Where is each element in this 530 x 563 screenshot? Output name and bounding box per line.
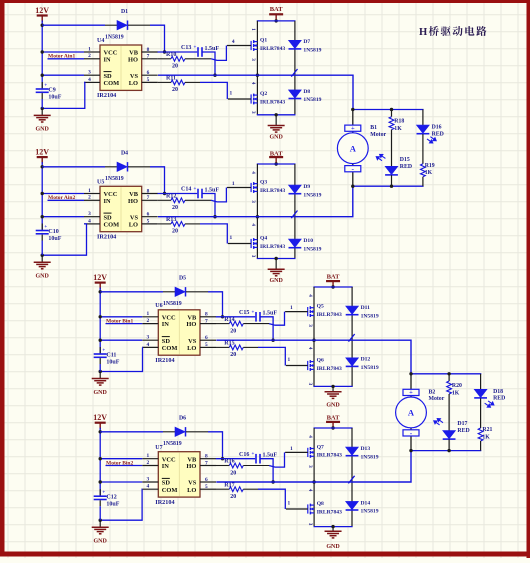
node VS junction: [213, 74, 216, 77]
wire COM pin4 to ground rail: [100, 347, 142, 371]
gate wire Q7: [285, 451, 308, 453]
svg-text:H: H: [419, 27, 428, 38]
svg-text:D12: D12: [361, 357, 371, 363]
svg-text:R17: R17: [224, 482, 234, 488]
svg-text:20: 20: [172, 205, 178, 211]
gate riser Q2: [200, 82, 227, 99]
wire D15 to bottom rail: [391, 175, 393, 186]
svg-text:1N5819: 1N5819: [361, 454, 379, 460]
gate wire Q5: [285, 311, 308, 313]
op-amp-driver U5 IR2104 block: [100, 186, 142, 231]
node BAT junction: [331, 426, 334, 429]
node VB junction: [163, 50, 166, 53]
node motor top junction: [351, 108, 354, 111]
wire bootstrap cap to VS: [202, 194, 215, 217]
node bottom rail junction: [274, 113, 277, 116]
ground symbol GND: [92, 372, 109, 386]
node SD junction: [41, 215, 44, 218]
wire diode cathode to VB net: [128, 24, 150, 26]
svg-text:IR2104: IR2104: [97, 234, 116, 241]
svg-text:U5: U5: [97, 180, 104, 186]
LED D16 RED (right column): [422, 110, 424, 126]
node VB junction: [221, 315, 224, 318]
pin stubs left: [142, 316, 158, 318]
svg-text:C16: C16: [239, 452, 249, 458]
svg-text:6: 6: [205, 335, 208, 341]
node SD junction: [41, 74, 44, 77]
svg-text:R20: R20: [452, 383, 462, 389]
wire bridge diode column: [294, 164, 296, 259]
svg-text:RED: RED: [432, 132, 444, 138]
node COM corner junction: [41, 254, 44, 257]
svg-text:2: 2: [88, 195, 91, 201]
transistor Q1 IRLR7843 (high side): [251, 40, 257, 51]
wire VS output net bridge2 to motor B1 bottom: [158, 186, 353, 217]
wire VCC pin1: [42, 51, 84, 53]
gate wire Q8: [286, 508, 308, 510]
svg-text:1: 1: [146, 311, 149, 317]
svg-text:8: 8: [147, 47, 150, 53]
gate riser Q4: [200, 224, 227, 244]
wire diode column slash jog: [348, 476, 354, 484]
resistor R11 20 (LO gate): [158, 81, 171, 83]
svg-text:VS: VS: [188, 338, 197, 345]
svg-text:C11: C11: [106, 353, 116, 359]
svg-text:Motor Ain2: Motor Ain2: [48, 195, 75, 201]
node VCC junction: [41, 192, 44, 195]
svg-text:7: 7: [147, 54, 150, 60]
svg-text:R10: R10: [166, 52, 176, 58]
svg-text:GND: GND: [269, 134, 283, 140]
power port BAT (Q3/Q4 bridge): [269, 150, 283, 163]
wire 12V to diode anode: [42, 166, 105, 168]
wire 12V rail: [41, 21, 43, 89]
LED D17 RED: [443, 431, 456, 440]
svg-text:Q1: Q1: [260, 38, 267, 44]
net label Motor Ain1: [48, 58, 85, 60]
svg-text:D13: D13: [361, 446, 371, 452]
node VCC junction: [41, 50, 44, 53]
wire bridge diode column: [351, 428, 353, 527]
gate wire Q2: [228, 98, 251, 100]
power port BAT (Q1/Q2 bridge): [269, 6, 283, 21]
svg-text:R13: R13: [166, 217, 176, 223]
wire 12V to diode anode: [100, 291, 163, 293]
resistor R18 1K: [391, 110, 393, 117]
svg-text:IRLR7843: IRLR7843: [317, 366, 342, 372]
svg-text:IN: IN: [104, 56, 111, 63]
svg-text:+: +: [194, 46, 197, 51]
gate riser Q8: [258, 489, 285, 509]
svg-text:1N5819: 1N5819: [361, 365, 379, 371]
wire VS output net bridge1 to motor B1 top: [158, 75, 353, 109]
diode D6 1N5819: [175, 427, 186, 436]
wire 12V rail: [41, 162, 43, 230]
svg-text:3: 3: [250, 111, 256, 114]
wire D17 to bottom rail: [448, 439, 450, 450]
svg-text:GND: GND: [94, 539, 108, 545]
node BAT junction: [331, 285, 334, 288]
resistor R19 1K (right column): [422, 134, 424, 164]
op-amp-driver U4 IR2104 block: [100, 45, 142, 90]
svg-text:B1: B1: [370, 125, 377, 131]
svg-text:1N5819: 1N5819: [163, 441, 182, 447]
svg-text:4: 4: [146, 484, 149, 490]
svg-text:1.5uF: 1.5uF: [263, 453, 278, 459]
gate wire Q3: [227, 187, 251, 189]
op-amp-driver U7 IR2104 block: [158, 452, 200, 497]
svg-text:SD: SD: [104, 214, 113, 221]
wire bridge bottom rail: [257, 114, 296, 116]
svg-text:D8: D8: [303, 89, 310, 95]
svg-text:20: 20: [230, 352, 236, 358]
wire bridge top rail: [314, 427, 353, 429]
wire R19 to bottom rail: [422, 177, 424, 186]
svg-text:20: 20: [230, 470, 236, 476]
svg-text:IRLR7843: IRLR7843: [317, 312, 342, 318]
svg-text:IRLR7843: IRLR7843: [260, 244, 285, 250]
svg-text:IR2104: IR2104: [97, 92, 116, 99]
svg-text:D6: D6: [179, 416, 186, 422]
svg-text:12V: 12V: [35, 6, 49, 15]
svg-text:Motor Bin2: Motor Bin2: [106, 460, 133, 466]
diode D4 1N5819: [117, 162, 128, 171]
svg-text:SD: SD: [162, 338, 171, 345]
gate wire Q4: [228, 243, 251, 245]
svg-text:6: 6: [147, 70, 150, 76]
svg-text:C9: C9: [48, 88, 55, 94]
svg-text:2: 2: [146, 318, 149, 324]
node VB junction: [163, 192, 166, 195]
svg-text:2: 2: [146, 460, 149, 466]
svg-text:20: 20: [230, 328, 236, 334]
svg-text:1: 1: [230, 91, 233, 97]
svg-text:1: 1: [288, 501, 291, 507]
svg-text:D5: D5: [179, 276, 186, 282]
wire COM pin4 to ground rail: [42, 82, 85, 108]
power port 12V (U5 block): [35, 148, 49, 164]
svg-text:8: 8: [205, 312, 208, 318]
svg-text:IN: IN: [162, 463, 169, 470]
svg-text:D16: D16: [432, 125, 442, 131]
diode D7 1N5819 (high side): [289, 40, 302, 49]
node bridge output junction: [256, 74, 259, 77]
svg-text:COM: COM: [104, 222, 120, 229]
gate riser Q3: [211, 188, 226, 202]
wire bridge left rail (drain-source chain): [313, 287, 315, 386]
svg-text:IRLR7843: IRLR7843: [317, 453, 342, 459]
svg-text:5: 5: [147, 219, 150, 225]
capacitor C12 10uF: [99, 489, 101, 495]
svg-text:R12: R12: [166, 194, 176, 200]
svg-text:IRLR7843: IRLR7843: [317, 509, 342, 515]
ground symbol GND: [34, 255, 51, 269]
svg-text:VS: VS: [130, 214, 139, 221]
svg-text:BAT: BAT: [270, 6, 284, 13]
wire diode column slash jog: [291, 211, 297, 219]
wire 12V rail: [99, 428, 101, 496]
svg-text:10uF: 10uF: [106, 360, 119, 366]
capacitor C11 10uF: [99, 347, 101, 353]
svg-text:1: 1: [230, 235, 233, 241]
node bridge output junction: [256, 215, 259, 218]
resistor R15 20 (LO gate): [216, 346, 229, 348]
svg-text:20: 20: [230, 494, 236, 500]
svg-text:C14: C14: [181, 187, 191, 193]
node COM corner junction: [41, 107, 44, 110]
svg-text:D15: D15: [400, 157, 410, 163]
wire VCC pin1: [100, 458, 142, 460]
svg-text:3: 3: [307, 465, 313, 468]
svg-text:4: 4: [250, 223, 256, 226]
svg-text:GND: GND: [326, 402, 340, 408]
svg-text:GND: GND: [36, 274, 50, 280]
pin stubs left: [84, 193, 100, 195]
svg-text:20: 20: [172, 64, 178, 70]
wire VS output net bridge3 to motor B2 top: [216, 340, 411, 374]
pin stubs left: [142, 458, 158, 460]
net label Motor Ain2: [48, 199, 85, 201]
svg-text:D18: D18: [493, 389, 503, 395]
wire SD pin3: [100, 339, 142, 341]
svg-text:12V: 12V: [93, 413, 107, 422]
svg-text:3: 3: [88, 211, 91, 217]
svg-text:3: 3: [307, 383, 313, 386]
svg-text:5: 5: [147, 77, 150, 83]
svg-text:D11: D11: [361, 305, 371, 311]
svg-text:Q7: Q7: [317, 444, 324, 450]
svg-text:+: +: [409, 389, 413, 396]
svg-text:C15: C15: [239, 310, 249, 316]
diode D11 1N5819 (high side): [346, 306, 359, 315]
svg-text:1N5819: 1N5819: [303, 246, 321, 252]
wire SD pin3: [42, 216, 84, 218]
pin SD overline: [162, 477, 170, 479]
diode D14 1N5819 (low side): [346, 501, 359, 510]
svg-text:Motor Ain1: Motor Ain1: [48, 54, 75, 60]
svg-text:R15: R15: [224, 341, 234, 347]
diode D10 1N5819 (low side): [289, 239, 302, 248]
wire bridge left rail (drain-source chain): [256, 21, 258, 115]
svg-text:+: +: [252, 452, 255, 457]
svg-text:LO: LO: [129, 222, 138, 229]
node BAT junction: [274, 19, 277, 22]
capacitor C14 1.5uF bootstrap: [158, 193, 198, 195]
resistor R14 20 (HO gate): [216, 323, 229, 325]
svg-text:R21: R21: [482, 427, 492, 433]
svg-text:BAT: BAT: [327, 274, 341, 281]
svg-text:3: 3: [307, 523, 313, 526]
node VB junction: [221, 457, 224, 460]
svg-text:4: 4: [250, 171, 256, 174]
svg-text:+: +: [44, 225, 47, 230]
svg-text:D10: D10: [303, 238, 313, 244]
pin SD overline: [104, 71, 112, 73]
net label Motor Bin1: [106, 323, 143, 325]
svg-text:R18: R18: [394, 119, 404, 125]
svg-text:7: 7: [147, 195, 150, 201]
node VS junction: [271, 480, 274, 483]
svg-text:3: 3: [250, 58, 256, 61]
wire bridge left rail (drain-source chain): [313, 428, 315, 527]
ground symbol GND (bridge): [325, 527, 342, 538]
diode D12 1N5819 (low side): [346, 358, 359, 367]
node bottom rail junction: [274, 257, 277, 260]
svg-text:IR2104: IR2104: [155, 499, 174, 506]
svg-text:BAT: BAT: [270, 150, 284, 157]
transistor Q4 IRLR7843 (low side): [251, 238, 257, 249]
svg-text:RED: RED: [493, 396, 505, 402]
svg-text:SD: SD: [104, 73, 113, 80]
node motor top junction: [409, 372, 412, 375]
wire bootstrap cap to VS: [260, 459, 273, 482]
node 12V junction: [99, 430, 102, 433]
node 12V junction: [41, 165, 44, 168]
svg-text:B2: B2: [429, 389, 436, 395]
svg-text:8: 8: [205, 454, 208, 460]
svg-text:D1: D1: [121, 9, 128, 15]
node COM corner junction: [99, 519, 102, 522]
svg-text:1K: 1K: [482, 434, 490, 440]
svg-text:HO: HO: [128, 56, 138, 63]
svg-text:U6: U6: [155, 303, 162, 309]
svg-text:C13: C13: [181, 45, 191, 51]
transistor Q3 IRLR7843 (high side): [251, 182, 257, 193]
wire COM pin4 to ground rail: [100, 489, 142, 520]
svg-text:D17: D17: [457, 421, 467, 427]
gate wire Q6: [286, 365, 308, 367]
wire VS output net bridge4 to motor B2 bottom: [216, 451, 411, 482]
svg-text:IN: IN: [162, 321, 169, 328]
wire bridge bottom rail: [313, 385, 352, 387]
svg-text:4: 4: [232, 39, 235, 45]
svg-text:COM: COM: [162, 345, 178, 352]
svg-text:1: 1: [232, 181, 235, 187]
svg-text:4: 4: [307, 347, 313, 350]
transistor Q2 IRLR7843 (low side): [251, 94, 257, 105]
node bridge output junction: [312, 480, 315, 483]
wire diode cathode to VB net: [186, 431, 208, 433]
wire diode column slash jog: [349, 334, 355, 342]
wire COM pin4 to ground rail: [42, 224, 86, 255]
svg-text:VS: VS: [130, 73, 139, 80]
svg-text:GND: GND: [326, 544, 340, 550]
svg-text:20: 20: [172, 229, 178, 235]
svg-text:1N5819: 1N5819: [361, 509, 379, 515]
svg-text:+: +: [102, 349, 105, 354]
transistor Q6 IRLR7843 (low side): [308, 360, 314, 371]
wire R20 to D17: [448, 394, 450, 431]
power port 12V (U6 block): [93, 273, 107, 289]
svg-text:A: A: [408, 408, 415, 418]
svg-text:D14: D14: [361, 500, 371, 506]
wire motor top rail (B1): [353, 109, 424, 111]
svg-text:+: +: [194, 187, 197, 192]
gate riser Q6: [258, 347, 285, 365]
power port 12V (U7 block): [93, 413, 107, 429]
resistor R13 20 (LO gate): [158, 223, 171, 225]
svg-text:+: +: [44, 84, 47, 89]
LED D15 RED: [385, 166, 398, 175]
svg-text:10uF: 10uF: [48, 236, 61, 242]
svg-text:2: 2: [88, 53, 91, 59]
svg-text:8: 8: [147, 188, 150, 194]
svg-text:C10: C10: [48, 229, 58, 235]
svg-text:4: 4: [88, 77, 91, 83]
svg-text:GND: GND: [94, 390, 108, 396]
wire motor bottom rail: [353, 185, 424, 187]
wire bridge bottom rail: [314, 526, 353, 528]
wire VCC pin1: [42, 193, 84, 195]
wire bridge top rail: [257, 20, 296, 22]
pin SD overline: [162, 336, 170, 338]
svg-text:1: 1: [290, 305, 293, 311]
svg-text:GND: GND: [269, 278, 283, 284]
svg-text:3: 3: [250, 255, 256, 258]
svg-text:4: 4: [250, 82, 256, 85]
wire VCC pin1: [100, 316, 142, 318]
svg-text:HO: HO: [128, 198, 138, 205]
svg-text:1N5819: 1N5819: [361, 313, 379, 319]
svg-text:+: +: [252, 310, 255, 315]
svg-text:BAT: BAT: [327, 415, 341, 422]
op-amp-driver U6 IR2104 block: [158, 310, 200, 355]
diode D1 1N5819: [117, 21, 128, 30]
pin stubs right: [200, 316, 216, 318]
svg-text:4: 4: [146, 342, 149, 348]
svg-text:6: 6: [147, 212, 150, 218]
wire R21 to bottom rail: [480, 441, 482, 451]
svg-text:4: 4: [307, 489, 313, 492]
svg-text:1.5uF: 1.5uF: [205, 187, 220, 193]
motor B1: [352, 110, 354, 187]
capacitor C13 1.5uF bootstrap: [158, 51, 198, 53]
diode D5 1N5819: [175, 287, 186, 296]
svg-text:1N5819: 1N5819: [105, 176, 124, 182]
svg-text:R16: R16: [224, 459, 234, 465]
wire R18 to D15: [391, 130, 393, 167]
node VS junction: [213, 215, 216, 218]
svg-text:Q2: Q2: [260, 91, 267, 97]
transistor Q8 IRLR7843 (low side): [308, 504, 314, 515]
svg-text:Q6: Q6: [317, 358, 324, 364]
svg-text:5: 5: [205, 484, 208, 490]
gate riser Q1: [211, 46, 226, 61]
node 12V junction: [41, 24, 44, 27]
svg-text:+: +: [351, 125, 355, 132]
ground symbol GND (bridge): [325, 386, 342, 398]
svg-text:A: A: [350, 143, 357, 153]
svg-text:LO: LO: [187, 345, 196, 352]
svg-text:IN: IN: [104, 198, 111, 205]
svg-text:1: 1: [88, 46, 91, 52]
svg-text:1N5819: 1N5819: [163, 301, 182, 307]
svg-text:4: 4: [88, 218, 91, 224]
svg-text:10uF: 10uF: [106, 502, 119, 508]
svg-text:Q5: Q5: [317, 304, 324, 310]
svg-text:D7: D7: [303, 39, 310, 45]
svg-text:1.5uF: 1.5uF: [263, 311, 278, 317]
power port 12V (U4 block): [35, 6, 49, 22]
pin stubs right: [200, 458, 216, 460]
gate riser Q7: [269, 452, 285, 467]
gate riser Q5: [269, 312, 285, 326]
node motor bottom junction: [351, 185, 354, 188]
svg-text:1K: 1K: [394, 126, 402, 132]
transistor Q5 IRLR7843 (high side): [308, 306, 314, 317]
svg-text:Motor Bin1: Motor Bin1: [106, 318, 133, 324]
svg-text:U4: U4: [97, 38, 104, 44]
